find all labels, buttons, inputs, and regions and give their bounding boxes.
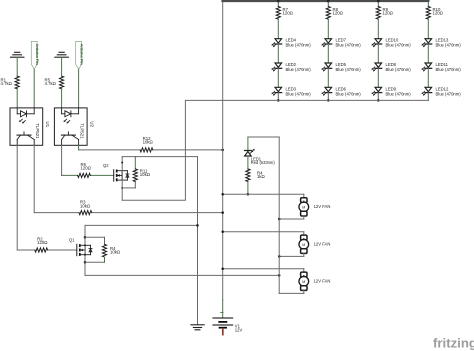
svg-text:fritzing: fritzing — [433, 336, 474, 351]
svg-text:12V FAN: 12V FAN — [314, 242, 331, 247]
node Arduino Pin 1 — [31, 41, 40, 69]
LED LED3 Blue 470nm — [272, 86, 312, 96]
resistor R5 4.7k — [45, 76, 64, 89]
wire LED10 to LED8 — [377, 44, 379, 63]
wire LED6 to cathode bus — [327, 93, 329, 101]
svg-text:120Ω: 120Ω — [333, 11, 344, 16]
svg-text:Blue (470nm): Blue (470nm) — [336, 43, 362, 48]
transistor Q1 MOSFET — [69, 238, 92, 256]
svg-text:Blue (470nm): Blue (470nm) — [286, 67, 312, 72]
wire LED1 top rail — [248, 136, 279, 138]
wire fan3 return — [279, 292, 304, 294]
svg-text:10kΩ: 10kΩ — [110, 250, 121, 255]
motor FAN1 12V — [299, 194, 330, 219]
wire ArduinoPin1 to U1 cathode — [33, 69, 35, 108]
wire Q2 source to LED bus riser — [122, 100, 185, 200]
wire fan1 return — [278, 218, 304, 221]
wire R10 to LED13 — [427, 19, 429, 39]
wire LED3 to cathode bus — [277, 93, 279, 101]
LED LED6 Blue 470nm — [322, 86, 362, 96]
wire Q2 block top rail — [122, 156, 197, 158]
svg-text:U2: U2 — [90, 121, 95, 127]
svg-text:4.7kΩ: 4.7kΩ — [45, 81, 57, 86]
svg-text:TLP521: TLP521 — [35, 123, 40, 139]
resistor R2 120 — [35, 236, 48, 252]
wire fan2 feed — [221, 230, 303, 233]
LED LED9 Blue 470nm — [372, 86, 412, 96]
wire R8 to LED7 — [327, 19, 329, 39]
wire LED8 to LED9 — [377, 68, 379, 87]
wire R2 row — [17, 249, 77, 251]
wire U1 collector down — [33, 145, 35, 212]
svg-text:Blue (470nm): Blue (470nm) — [436, 91, 462, 96]
svg-text:Blue (470nm): Blue (470nm) — [336, 91, 362, 96]
resistor R4 10k (gate pulldown) — [85, 237, 121, 262]
wire 12V top bus — [223, 0, 429, 3]
LED LED4 Blue 470nm — [272, 38, 312, 48]
wire fan1 feed — [221, 193, 303, 196]
svg-text:120Ω: 120Ω — [283, 11, 294, 16]
LED LED7 Blue 470nm — [322, 38, 362, 48]
node Arduino Pin 2 — [76, 41, 85, 69]
node cathode bus junction 2 — [327, 99, 330, 102]
svg-text:Arduino Pin: Arduino Pin — [79, 44, 84, 66]
svg-text:12V FAN: 12V FAN — [314, 204, 331, 209]
wire ground2 to R5 — [61, 57, 63, 76]
wire Q2 drain rail — [121, 157, 123, 171]
svg-text:Blue (470nm): Blue (470nm) — [436, 43, 462, 48]
wire R9 to LED10 — [377, 19, 379, 39]
resistor R10 120 — [426, 2, 443, 19]
wire R3 row — [34, 212, 223, 214]
svg-text:10kΩ: 10kΩ — [143, 140, 154, 145]
wire LED11 to LED12 — [427, 68, 429, 87]
svg-text:120Ω: 120Ω — [383, 11, 394, 16]
svg-text:Blue (470nm): Blue (470nm) — [336, 67, 362, 72]
wire fan3 feed — [221, 267, 303, 270]
LED LED2 Blue 470nm — [272, 62, 312, 72]
wire Q1 vertical rail — [84, 225, 87, 275]
wire LED cathode bus — [185, 99, 428, 101]
svg-text:Red (633nm): Red (633nm) — [251, 160, 276, 165]
LED LED11 Blue 470nm — [422, 62, 462, 72]
svg-text:Blue (470nm): Blue (470nm) — [386, 91, 412, 96]
svg-text:Blue (470nm): Blue (470nm) — [386, 67, 412, 72]
wire LED2 to LED3 — [277, 68, 279, 87]
node R12-rail junction — [221, 149, 224, 152]
svg-text:Blue (470nm): Blue (470nm) — [286, 43, 312, 48]
svg-text:U1: U1 — [45, 121, 50, 127]
wire LED1 anode lead — [247, 137, 249, 150]
svg-text:TLP521: TLP521 — [80, 123, 85, 139]
wire U1 emitter down — [16, 145, 18, 250]
svg-text:12V: 12V — [235, 328, 243, 333]
ground GND3 — [191, 325, 204, 330]
wire R5 to U2 anode — [61, 89, 63, 108]
wire R1 to U1 anode — [16, 89, 18, 108]
svg-text:10kΩ: 10kΩ — [140, 172, 151, 177]
wire LED4 to LED2 — [277, 44, 279, 63]
svg-text:12V FAN: 12V FAN — [314, 279, 331, 284]
resistor R4 1k — [246, 169, 266, 182]
wire LED7 to LED5 — [327, 44, 329, 63]
resistor R8 120 — [326, 2, 343, 19]
wire R4 to 12V row — [247, 182, 250, 196]
svg-text:120Ω: 120Ω — [37, 240, 48, 245]
svg-text:Q1: Q1 — [69, 238, 75, 243]
node cathode bus junction 1 — [277, 99, 280, 102]
op-amp U1 optocoupler TLP521 — [10, 108, 50, 145]
motor FAN3 12V — [299, 269, 330, 294]
op-amp U2 optocoupler TLP521 — [54, 108, 94, 145]
wire LED5 to LED6 — [327, 68, 329, 87]
wire R6 row — [62, 174, 114, 176]
fritzing watermark — [433, 336, 474, 351]
svg-text:Blue (470nm): Blue (470nm) — [436, 67, 462, 72]
node cathode bus junction 3 — [377, 99, 380, 102]
wire ground rail vertical — [197, 157, 199, 324]
svg-text:M: M — [302, 243, 305, 247]
wire ArduinoPin2 to U2 cathode — [78, 69, 80, 108]
transistor Q2 MOSFET — [103, 163, 129, 181]
wire U2 collector down — [78, 145, 80, 150]
wire LED1 to R4 — [247, 156, 249, 169]
battery V1 12V — [213, 312, 242, 334]
LED LED10 Blue 470nm — [372, 38, 412, 48]
wire LED13 to LED11 — [427, 44, 429, 63]
wire R12 row — [79, 149, 223, 151]
wire 12V vertical rail — [222, 1, 224, 300]
svg-text:M: M — [302, 205, 305, 209]
resistor R11 10k — [133, 157, 151, 188]
svg-text:120Ω: 120Ω — [81, 166, 92, 171]
svg-text:1kΩ: 1kΩ — [257, 174, 266, 179]
wire U2 emitter down — [61, 145, 63, 175]
LED LED13 Blue 470nm — [422, 38, 462, 48]
wire fan2 return — [278, 255, 304, 258]
wire fan negative rail — [278, 137, 280, 293]
resistor R1 4.7k — [1, 76, 20, 89]
resistor R7 120 — [276, 2, 293, 19]
resistor R9 120 — [376, 2, 393, 19]
wire Q2 block bottom rail — [122, 187, 135, 189]
wire R7 to LED4 — [277, 19, 279, 39]
resistor R3 10k — [79, 200, 92, 215]
wire Q1 top rail to ground rail — [85, 224, 199, 227]
wire rail to battery (green) — [222, 300, 224, 318]
resistor R12 10k — [140, 136, 153, 152]
svg-text:Blue (470nm): Blue (470nm) — [286, 91, 312, 96]
svg-text:M: M — [302, 280, 305, 284]
svg-text:4.7kΩ: 4.7kΩ — [1, 81, 13, 86]
LED LED8 Blue 470nm — [372, 62, 412, 72]
LED LED5 Blue 470nm — [322, 62, 362, 72]
svg-text:10kΩ: 10kΩ — [80, 203, 91, 208]
LED LED12 Blue 470nm — [422, 86, 462, 96]
motor FAN2 12V — [299, 232, 330, 257]
ground GND2 (flipped) — [55, 52, 69, 57]
svg-text:Q2: Q2 — [103, 163, 109, 168]
wire ground1 to R1 — [16, 57, 18, 76]
wire LED12 to cathode bus — [427, 93, 429, 101]
ground GND1 (flipped) — [10, 52, 24, 57]
LED1 Red (633nm) — [245, 149, 276, 165]
svg-text:Blue (470nm): Blue (470nm) — [386, 43, 412, 48]
resistor R6 120 — [78, 162, 92, 178]
svg-text:Arduino Pin: Arduino Pin — [35, 44, 40, 66]
wire LED9 to cathode bus — [377, 93, 379, 101]
wire Q1 source to fan return — [85, 274, 280, 277]
wire Q2 source rail — [121, 180, 123, 200]
svg-text:120Ω: 120Ω — [433, 11, 444, 16]
node R3-rail junction — [221, 211, 224, 214]
